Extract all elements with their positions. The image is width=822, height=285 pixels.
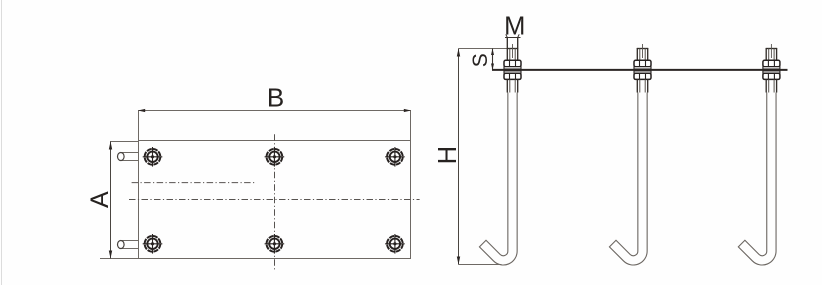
dimension H arrow top — [457, 49, 460, 57]
anchor bolt 3 — [738, 44, 780, 265]
bolt center line tick — [770, 44, 772, 58]
upper washer — [504, 67, 521, 69]
dimension H line — [458, 49, 460, 265]
dimension M line with end ticks — [505, 34, 521, 37]
svg-text:A: A — [86, 191, 114, 208]
bolt hole bottom-middle — [265, 234, 285, 254]
lower nut — [634, 73, 651, 79]
rod top cap — [507, 48, 518, 50]
svg-text:B: B — [267, 82, 284, 112]
dimension A arrow top — [109, 142, 112, 150]
thread inner lines upper — [509, 49, 511, 61]
lower washer — [504, 71, 521, 73]
lower nut — [504, 73, 521, 79]
label H — [434, 146, 462, 164]
plate outline — [139, 111, 411, 259]
lower washer — [763, 71, 780, 73]
center line horizontal lower (dash-dot) — [129, 199, 420, 201]
center line horizontal upper (dash-dot) — [132, 182, 256, 184]
dimension H extension line bottom — [459, 264, 502, 266]
shank and J hook — [609, 93, 647, 265]
bolt center line tick — [642, 44, 644, 58]
dimension A extension line top — [110, 141, 139, 143]
plate band divider line — [139, 140, 411, 142]
thread outline lower — [506, 79, 508, 92]
stud top left — [118, 153, 139, 161]
lower nut — [763, 73, 780, 79]
anchor bolt 2 — [609, 44, 651, 265]
bolt hole bottom-left — [143, 234, 163, 254]
dimension S arrow top — [491, 49, 494, 56]
svg-text:H: H — [434, 146, 462, 164]
plate bottom edge extension (left) — [100, 258, 139, 260]
plate edge line (side view) — [492, 69, 788, 71]
upper nut — [763, 60, 780, 66]
bolt hole bottom-right — [385, 234, 405, 254]
rod top cap — [766, 48, 777, 50]
upper nut — [634, 60, 651, 66]
bolt hole top-middle — [265, 147, 285, 167]
dimension B arrow right — [404, 109, 411, 112]
dimension H arrow bottom — [457, 257, 460, 265]
M extension / thread outline upper — [506, 38, 508, 61]
dimension B arrow left — [138, 109, 145, 112]
dimension H extension line top — [459, 48, 508, 50]
stud bottom left — [118, 241, 139, 249]
svg-text:S: S — [469, 53, 492, 67]
bolt hole top-right — [385, 147, 405, 167]
dimension A arrow bottom — [109, 251, 112, 259]
dimension S arrow bottom — [491, 64, 494, 71]
label S — [469, 53, 492, 67]
upper nut — [504, 60, 521, 66]
upper washer — [763, 67, 780, 69]
shank and J hook — [479, 93, 517, 265]
shank and J hook — [738, 93, 776, 265]
thread outline lower — [765, 79, 767, 92]
anchor bolt 1 — [479, 38, 521, 265]
bolt hole top-left — [143, 147, 163, 167]
lower washer — [634, 71, 651, 73]
rod top cap — [637, 48, 648, 50]
dimension A line — [110, 142, 112, 259]
thread outline lower — [636, 79, 638, 92]
label A — [86, 191, 114, 208]
page left border — [1, 0, 3, 285]
dimension S line — [492, 49, 494, 71]
center line vertical middle (dash-dot) — [274, 134, 276, 270]
upper washer — [634, 67, 651, 69]
bolt center line tick — [512, 44, 514, 58]
